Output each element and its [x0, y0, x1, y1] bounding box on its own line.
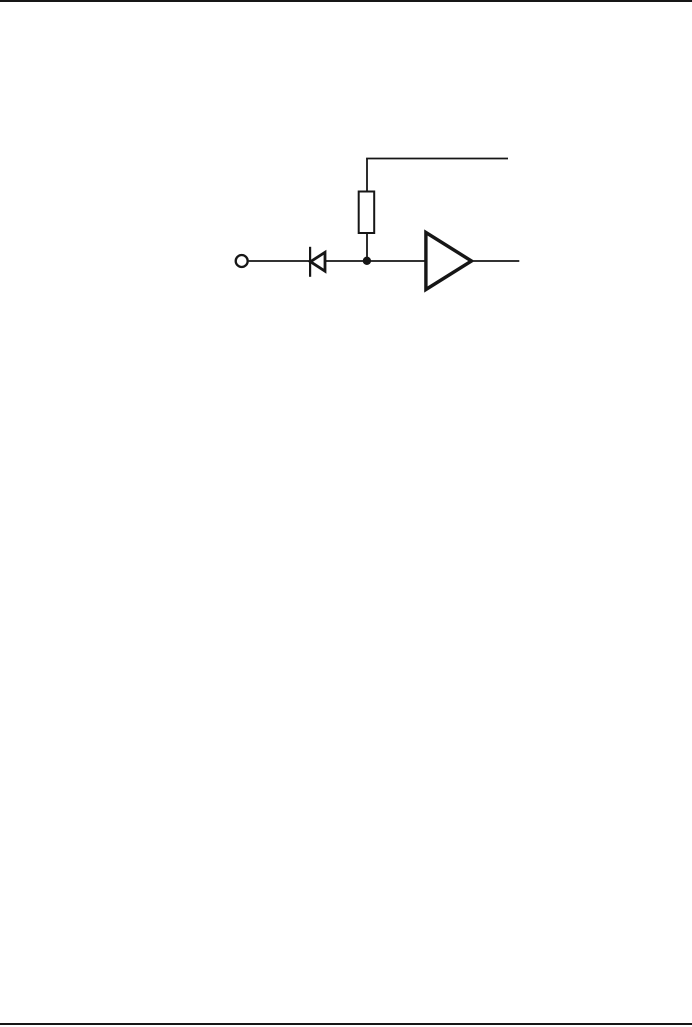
- node IN terminal: [236, 255, 248, 267]
- wire junction to buffer: [367, 260, 426, 262]
- op-amp buffer U1: [426, 233, 472, 290]
- junction node: [363, 257, 371, 265]
- wire diode to junction: [326, 260, 368, 262]
- wire top rail: [366, 158, 508, 160]
- wire input to diode: [249, 260, 309, 262]
- wire resistor top: [366, 159, 368, 192]
- wire resistor bottom to junction: [366, 233, 368, 261]
- resistor R1: [359, 192, 375, 234]
- diode D1: [310, 247, 325, 277]
- wire output: [474, 260, 520, 262]
